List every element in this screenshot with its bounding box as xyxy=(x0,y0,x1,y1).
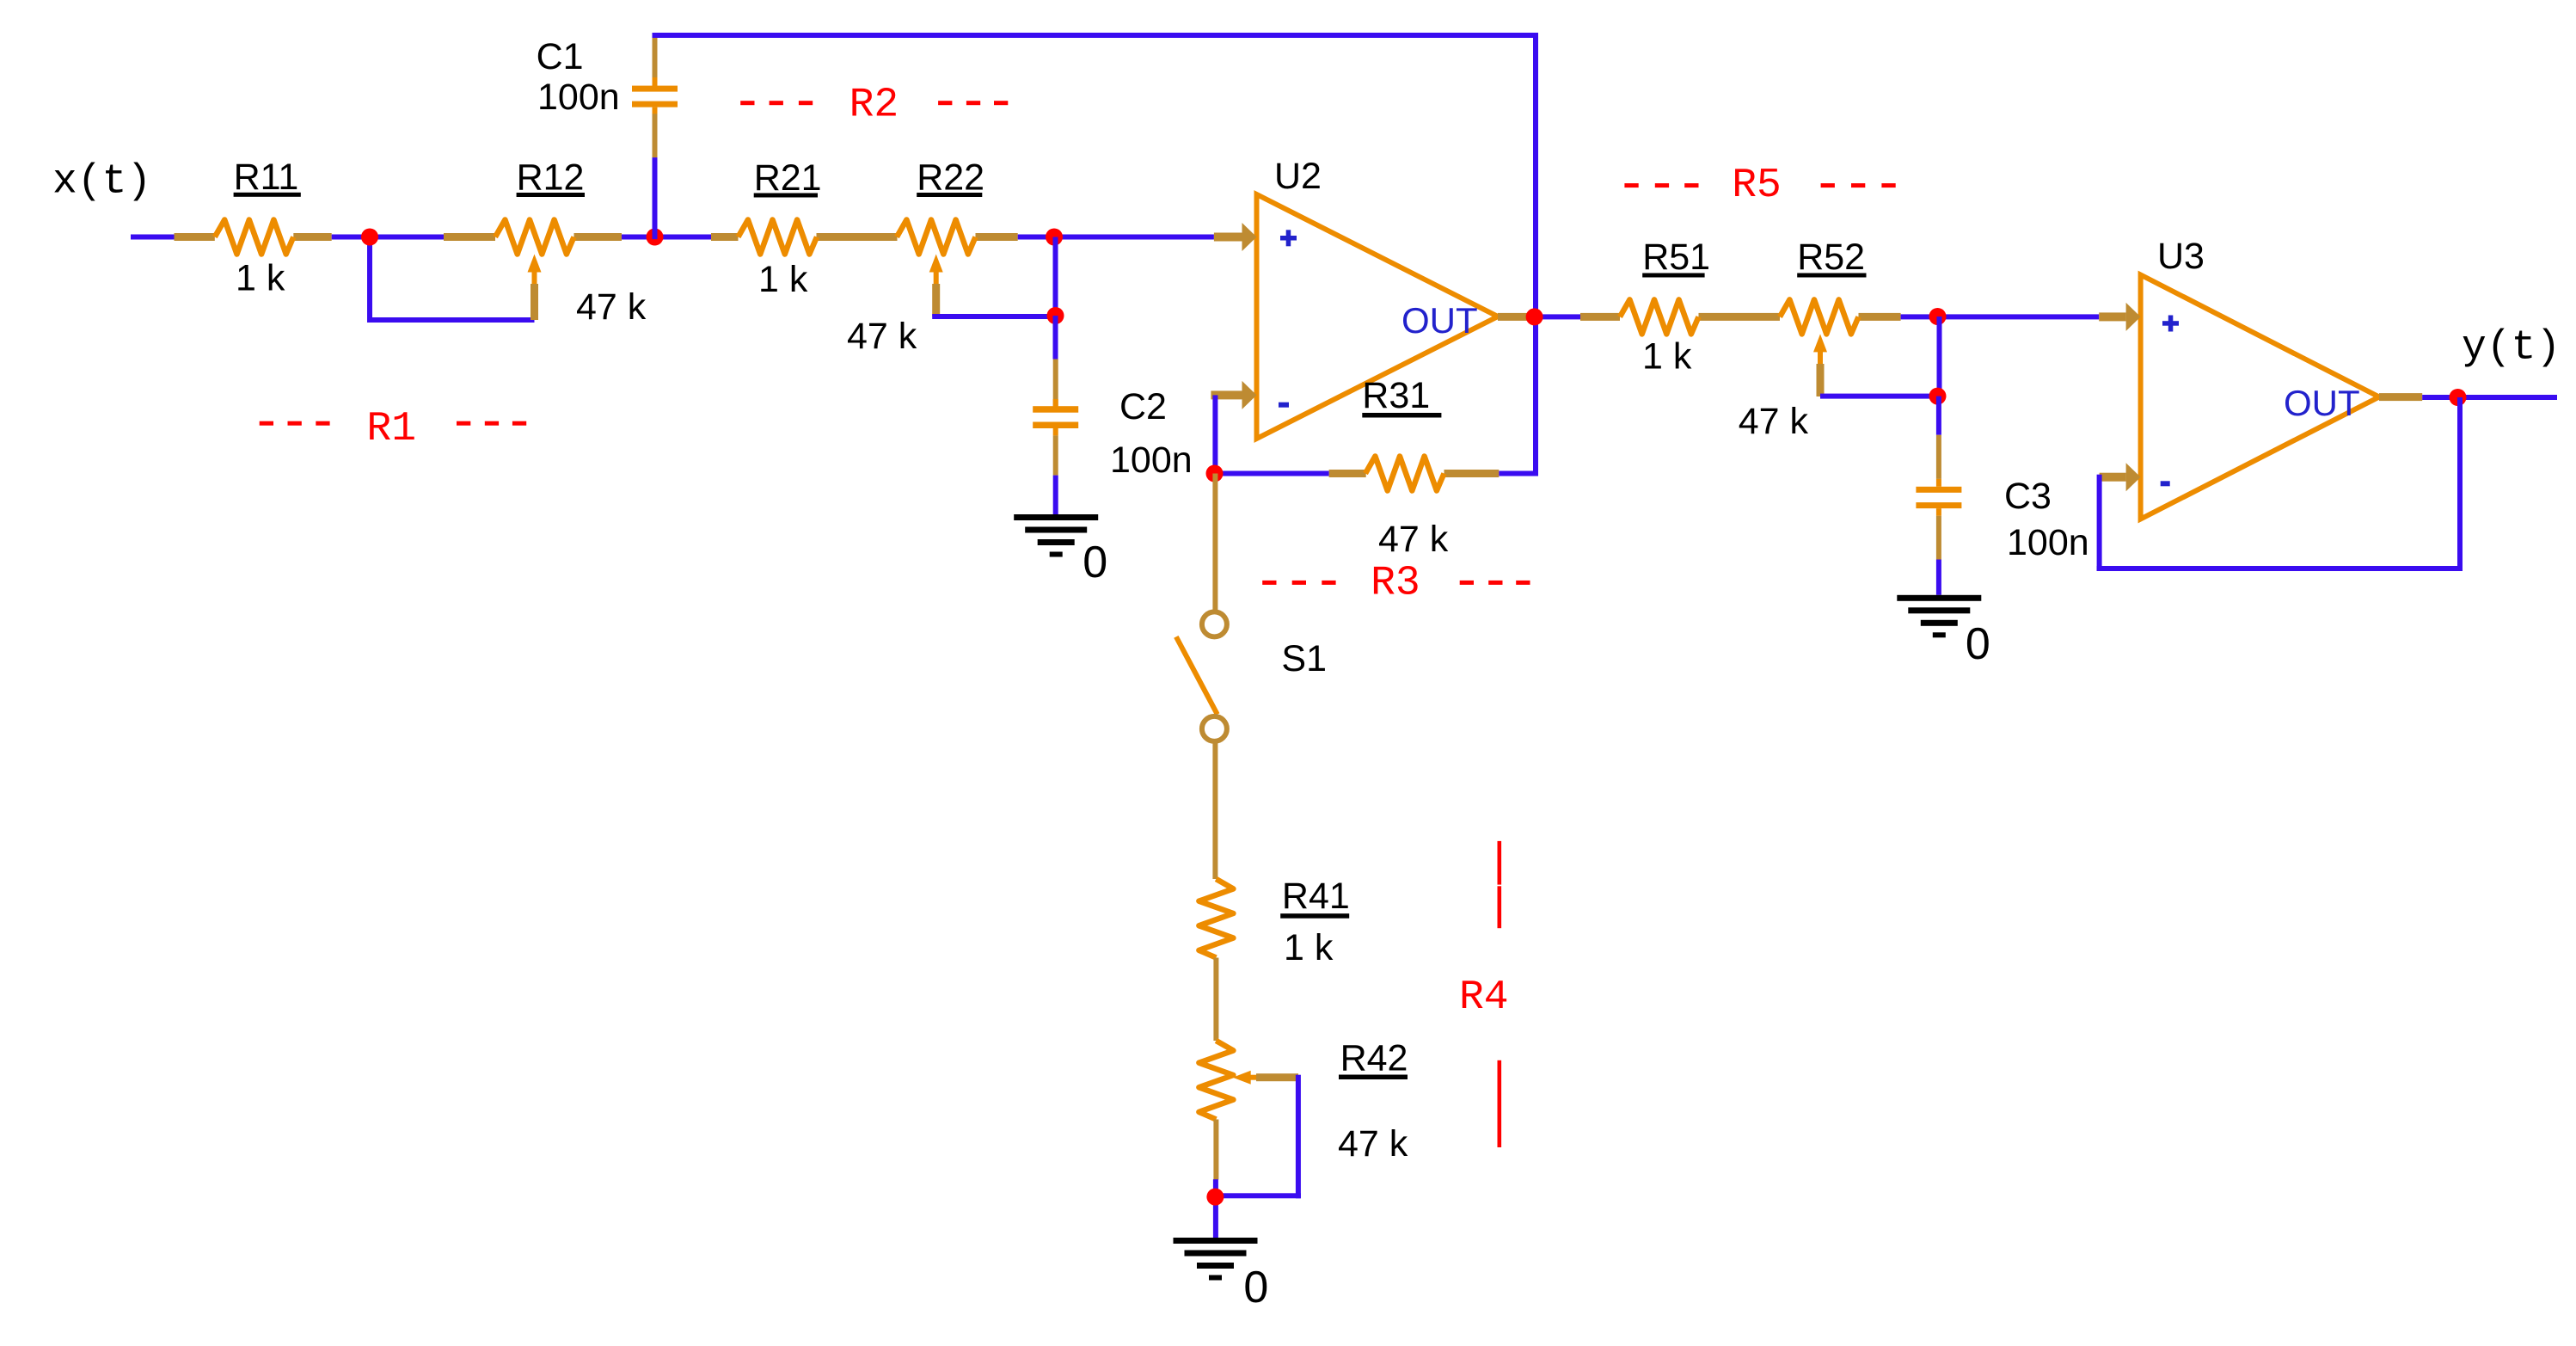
wire R41 to R42 xyxy=(1213,958,1218,1042)
ground 0 under C3 xyxy=(1897,595,1990,669)
svg-text:R4: R4 xyxy=(1459,974,1509,1021)
svg-text:100n: 100n xyxy=(2007,522,2089,563)
svg-text:R41: R41 xyxy=(1282,876,1350,917)
junction J8 xyxy=(1929,388,1947,405)
junction U2 out xyxy=(1526,308,1543,325)
wire J6 row xyxy=(1215,471,1329,476)
resistor R12 potentiometer xyxy=(444,157,647,329)
wire U3 out xyxy=(2379,393,2422,401)
junction J6 xyxy=(1206,465,1224,482)
capacitor C2 xyxy=(1033,316,1192,517)
op-amp U3 xyxy=(2099,236,2379,519)
label R2 xyxy=(740,82,1008,128)
svg-text:0: 0 xyxy=(1243,1263,1268,1312)
resistor R11 xyxy=(175,157,332,299)
wire input stub xyxy=(131,235,175,240)
svg-text:R12: R12 xyxy=(517,157,585,199)
svg-text:47 k: 47 k xyxy=(1739,401,1809,442)
svg-text:0: 0 xyxy=(1083,538,1107,587)
junction J1 xyxy=(361,229,378,246)
junction J5 xyxy=(1047,307,1064,324)
resistor R22 potentiometer xyxy=(847,157,1018,358)
svg-text:1 k: 1 k xyxy=(758,259,808,300)
svg-text:47 k: 47 k xyxy=(1378,519,1449,560)
wire R12 to R21 xyxy=(622,235,711,240)
svg-text:47 k: 47 k xyxy=(576,286,647,328)
svg-text:100n: 100n xyxy=(1110,439,1193,481)
svg-text:U2: U2 xyxy=(1274,156,1322,197)
wire U2 out xyxy=(1498,313,1532,321)
wire J7 to J8 xyxy=(1937,317,1942,396)
svg-text:1 k: 1 k xyxy=(1284,927,1334,968)
wire U3 feedback loop xyxy=(2457,397,2463,571)
svg-text:R21: R21 xyxy=(754,157,822,199)
wire R42 to ground xyxy=(1213,1120,1218,1180)
svg-text:R52: R52 xyxy=(1797,237,1865,278)
wire J1 drop loop xyxy=(367,237,372,321)
wire J7 to U3 plus xyxy=(1939,314,2099,319)
wire U2 minus vertical xyxy=(1212,395,1217,473)
svg-text:R1: R1 xyxy=(366,406,416,452)
svg-text:R22: R22 xyxy=(917,157,984,199)
svg-text:1 k: 1 k xyxy=(236,258,285,299)
svg-text:x(t): x(t) xyxy=(52,159,151,206)
svg-text:R11: R11 xyxy=(234,157,299,198)
op-amp U2 xyxy=(1211,156,1498,439)
resistor R52 potentiometer xyxy=(1739,237,1901,442)
wire R42 wiper loop xyxy=(1296,1075,1301,1199)
wire R11 to R12 xyxy=(332,235,444,240)
resistor R51 xyxy=(1580,237,1780,378)
svg-text:C3: C3 xyxy=(2004,476,2052,517)
junction J7 xyxy=(1929,308,1947,325)
resistor R21 xyxy=(711,157,898,300)
wire R22 to U2 plus xyxy=(1018,235,1214,240)
svg-text:R5: R5 xyxy=(1732,163,1782,209)
svg-text:R42: R42 xyxy=(1340,1037,1408,1079)
svg-text:R51: R51 xyxy=(1642,237,1710,278)
svg-text:1 k: 1 k xyxy=(1642,336,1692,378)
svg-text:C2: C2 xyxy=(1119,386,1167,427)
svg-text:47 k: 47 k xyxy=(1338,1123,1408,1165)
svg-text:47 k: 47 k xyxy=(847,316,917,357)
svg-text:y(t): y(t) xyxy=(2462,325,2561,372)
svg-text:OUT: OUT xyxy=(1401,300,1478,341)
label R4 xyxy=(1459,841,1509,1147)
resistor R42 potentiometer xyxy=(1199,1037,1408,1165)
junction U3 out xyxy=(2450,389,2467,406)
wire R52 wiper loop xyxy=(1820,394,1940,399)
svg-text:R3: R3 xyxy=(1371,560,1420,606)
wire R52 to J7 xyxy=(1901,314,1942,319)
svg-text:S1: S1 xyxy=(1281,638,1327,679)
ground 0 under R42 xyxy=(1174,1238,1269,1312)
svg-text:U3: U3 xyxy=(2157,236,2205,277)
svg-text:100n: 100n xyxy=(537,77,620,118)
svg-text:R31: R31 xyxy=(1362,375,1430,416)
wire R22 wiper loop xyxy=(932,314,1058,319)
junction J10 xyxy=(1206,1189,1224,1206)
svg-text:OUT: OUT xyxy=(2284,383,2360,423)
capacitor C3 xyxy=(1916,396,2088,595)
svg-text:R2: R2 xyxy=(849,82,899,128)
resistor R31 xyxy=(1329,375,1500,560)
label R5 xyxy=(1624,163,1895,209)
junction J2 xyxy=(647,229,664,246)
svg-text:C1: C1 xyxy=(537,36,584,77)
wire feedback top xyxy=(653,33,1539,38)
junction J3 xyxy=(1046,229,1063,246)
ground 0 under C2 xyxy=(1014,514,1107,587)
resistor R41 xyxy=(1199,876,1349,968)
label R3 xyxy=(1262,560,1530,606)
label R1 xyxy=(260,406,527,452)
wire J3 down to J5 xyxy=(1053,237,1058,317)
switch S1 xyxy=(1176,474,1327,880)
svg-text:0: 0 xyxy=(1966,619,1990,669)
capacitor C1 xyxy=(537,33,678,239)
